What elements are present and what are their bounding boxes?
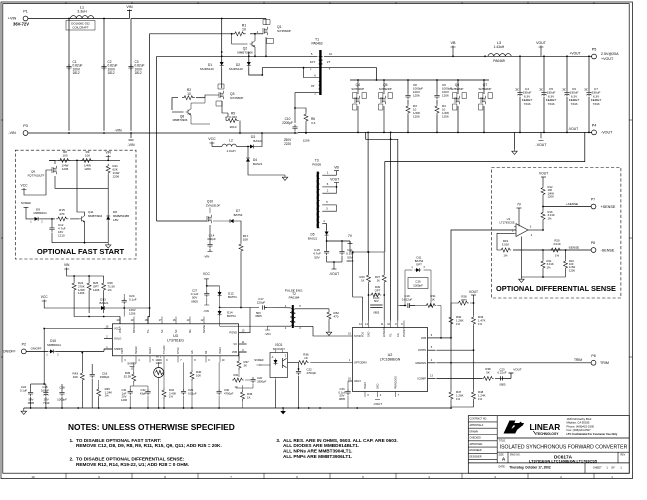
wire 7V bus bbox=[350, 241, 384, 253]
svg-text:FSET: FSET bbox=[121, 347, 124, 354]
capacitor C30b bbox=[217, 362, 234, 408]
svg-text:P0926: P0926 bbox=[312, 163, 321, 167]
svg-text:P5: P5 bbox=[592, 48, 597, 52]
svg-text:1%: 1% bbox=[478, 322, 483, 326]
svg-text:3.: 3. bbox=[276, 438, 280, 444]
resistor R15 bbox=[56, 208, 79, 221]
wire -VIN rail bbox=[28, 129, 298, 134]
svg-text:APPROVED: APPROVED bbox=[470, 443, 483, 446]
wire C15 C11 join bbox=[327, 261, 342, 263]
wire -SENSE bbox=[513, 245, 591, 251]
terminal P3 -VIN bbox=[8, 124, 28, 135]
svg-text:2: 2 bbox=[327, 189, 329, 193]
resistor R27 bbox=[375, 252, 386, 321]
resistor R12 bbox=[541, 185, 554, 210]
svg-text:MMBT3906: MMBT3906 bbox=[237, 50, 253, 54]
svg-text:OF: OF bbox=[611, 465, 615, 469]
svg-text:3: 3 bbox=[124, 359, 126, 362]
svg-text:P8: P8 bbox=[591, 241, 595, 245]
svg-text:9T: 9T bbox=[311, 84, 315, 88]
svg-text:7343: 7343 bbox=[43, 401, 50, 405]
capacitor C33 bbox=[338, 387, 350, 408]
resistor R1 bbox=[233, 24, 247, 36]
svg-text:2: 2 bbox=[285, 326, 287, 330]
svg-text:BAS21: BAS21 bbox=[253, 139, 263, 143]
svg-text:ICOMP: ICOMP bbox=[417, 376, 426, 380]
svg-text:BAS21: BAS21 bbox=[100, 301, 109, 305]
svg-text:52.3K: 52.3K bbox=[124, 374, 132, 378]
resistor R40 bbox=[190, 362, 202, 408]
wire P2 to shdn bbox=[26, 350, 48, 352]
svg-text:APPROVALS: APPROVALS bbox=[470, 424, 484, 427]
svg-text:0.1uF: 0.1uF bbox=[20, 388, 28, 392]
svg-text:10: 10 bbox=[242, 27, 246, 31]
transistor Q8 MMBT3906 bbox=[172, 103, 210, 124]
svg-text:10K: 10K bbox=[243, 238, 249, 242]
diode D8 MMBZ5248B bbox=[106, 210, 129, 243]
notes heading bbox=[68, 422, 235, 432]
capacitor C31 bbox=[121, 386, 133, 408]
resistor R36 bbox=[298, 353, 353, 370]
svg-text:3: 3 bbox=[367, 394, 369, 397]
logo linear technology bbox=[504, 417, 618, 436]
svg-text:Si7456DP: Si7456DP bbox=[277, 29, 291, 33]
svg-text:18: 18 bbox=[145, 319, 148, 322]
capacitor C8 1000pF bbox=[405, 80, 423, 104]
svg-text:1K: 1K bbox=[431, 297, 435, 301]
net label SVREF fast start bbox=[21, 201, 33, 219]
capacitor C6 bbox=[563, 57, 580, 133]
svg-text:5: 5 bbox=[311, 52, 313, 56]
svg-text:VIN: VIN bbox=[126, 5, 133, 9]
svg-text:17: 17 bbox=[159, 319, 162, 322]
svg-text:VCC: VCC bbox=[21, 184, 29, 188]
svg-text:-VOUT: -VOUT bbox=[373, 402, 382, 406]
svg-text:COILCRAFT: COILCRAFT bbox=[72, 26, 88, 30]
svg-text:4700pF: 4700pF bbox=[307, 371, 317, 375]
wire C1 drop bbox=[68, 19, 70, 131]
svg-text:1: 1 bbox=[411, 266, 413, 269]
svg-text:1: 1 bbox=[314, 92, 316, 96]
capacitor C28 bbox=[57, 384, 67, 408]
wire T1 pin1 bbox=[295, 93, 319, 123]
diode D13 BAS21 bbox=[60, 298, 151, 311]
net label 7V u1 bbox=[517, 202, 522, 226]
svg-text:Milpitas, CA 95035: Milpitas, CA 95035 bbox=[567, 421, 590, 425]
svg-text:OVLO: OVLO bbox=[114, 337, 121, 341]
svg-text:SVREF: SVREF bbox=[135, 345, 138, 354]
resistor R47 bbox=[449, 362, 464, 407]
svg-text:MMBT3904: MMBT3904 bbox=[88, 214, 103, 218]
wire snubber return bbox=[366, 132, 398, 320]
svg-text:ON/OFF: ON/OFF bbox=[31, 347, 42, 351]
svg-text:0.1uF: 0.1uF bbox=[129, 298, 137, 302]
resistor R43 bbox=[73, 352, 85, 408]
svg-text:7343: 7343 bbox=[571, 102, 578, 106]
svg-text:CHECKED: CHECKED bbox=[470, 438, 482, 440]
wire ground rail left bbox=[24, 407, 110, 409]
transformer T3 P0926 bbox=[312, 159, 328, 229]
svg-text:GS: GS bbox=[191, 350, 194, 354]
svg-text:2200pF: 2200pF bbox=[282, 121, 293, 125]
svg-text:U3: U3 bbox=[173, 334, 178, 338]
svg-text:20: 20 bbox=[117, 319, 120, 322]
svg-text:PA0469: PA0469 bbox=[493, 59, 505, 63]
svg-text:OPT: OPT bbox=[375, 289, 381, 293]
svg-text:1%: 1% bbox=[503, 254, 508, 258]
svg-text:OPTODRV: OPTODRV bbox=[354, 361, 367, 365]
wire VB rail right bbox=[324, 55, 592, 57]
thermistor RT1 bbox=[154, 355, 164, 408]
svg-text:SYNC: SYNC bbox=[354, 334, 361, 338]
svg-text:8: 8 bbox=[401, 323, 403, 326]
svg-text:1.43uH: 1.43uH bbox=[494, 45, 505, 49]
svg-text:0805: 0805 bbox=[499, 382, 506, 386]
svg-text:GND: GND bbox=[368, 331, 371, 337]
capacitor C16 bbox=[405, 270, 431, 306]
svg-text:LTC Confidential For Customer: LTC Confidential For Customer Use Only bbox=[567, 432, 618, 436]
diode D14 BAT54 bbox=[218, 309, 236, 326]
svg-text:SGND: SGND bbox=[149, 347, 152, 354]
svg-text:SVREF: SVREF bbox=[254, 358, 264, 362]
svg-text:P7: P7 bbox=[591, 197, 595, 201]
svg-text:0805: 0805 bbox=[28, 401, 35, 405]
svg-text:1K: 1K bbox=[304, 356, 308, 360]
svg-text:ALL NPNs ARE MMBT3904LT1.: ALL NPNs ARE MMBT3904LT1. bbox=[283, 449, 352, 455]
note 2 bbox=[70, 457, 189, 468]
svg-text:P6: P6 bbox=[591, 354, 595, 358]
net label -VIN t2 bbox=[265, 326, 271, 336]
diode D4 BAS21 bbox=[246, 146, 263, 166]
svg-text:DWG NO.: DWG NO. bbox=[510, 455, 521, 457]
svg-text:1%: 1% bbox=[478, 397, 483, 401]
svg-text:-VIN: -VIN bbox=[265, 332, 271, 336]
svg-text:OPTIONAL DIFFERENTIAL SENSE: OPTIONAL DIFFERENTIAL SENSE bbox=[496, 284, 616, 293]
svg-text:1%: 1% bbox=[456, 397, 461, 401]
wire opto feedback bbox=[254, 358, 270, 365]
resistor R21 bbox=[541, 250, 554, 277]
svg-text:16: 16 bbox=[106, 326, 109, 329]
svg-text:LTC1698EGN: LTC1698EGN bbox=[380, 358, 401, 362]
svg-text:1: 1 bbox=[620, 465, 622, 469]
svg-text:VFB: VFB bbox=[421, 336, 426, 340]
op-amp U1 LT1783CS5 bbox=[499, 217, 532, 237]
svg-text:3300pF: 3300pF bbox=[257, 379, 267, 383]
svg-text:VOUT: VOUT bbox=[513, 367, 522, 371]
svg-text:P1: P1 bbox=[23, 10, 28, 14]
ground left bbox=[21, 408, 27, 414]
svg-text:PGND: PGND bbox=[229, 331, 237, 335]
capacitor C24 bbox=[20, 384, 35, 408]
wire -VOUT rail bbox=[298, 132, 592, 134]
svg-text:TRIM: TRIM bbox=[600, 361, 609, 365]
svg-text:P3: P3 bbox=[23, 124, 28, 128]
inductor L1 bbox=[66, 6, 95, 31]
transistor Q11 MMBT3904 bbox=[77, 160, 103, 242]
svg-text:+SENSE: +SENSE bbox=[566, 202, 578, 206]
resistor R42 bbox=[162, 362, 176, 408]
svg-text:10: 10 bbox=[387, 323, 390, 326]
svg-text:ENGINEER: ENGINEER bbox=[470, 450, 482, 452]
svg-text:1K: 1K bbox=[247, 396, 251, 400]
svg-text:DATE:: DATE: bbox=[499, 466, 506, 469]
capacitor C19 bbox=[400, 294, 432, 308]
wire kelvin gnd sense bbox=[385, 132, 585, 252]
caption optional differential sense bbox=[496, 284, 616, 293]
capacitor C11 mid bbox=[339, 241, 354, 263]
capacitor C12 bbox=[49, 218, 65, 243]
svg-text:7V: 7V bbox=[517, 202, 522, 206]
svg-text:3.3: 3.3 bbox=[311, 121, 316, 125]
svg-text:7: 7 bbox=[398, 394, 400, 397]
capacitor C27 bbox=[191, 286, 210, 313]
op-amp U3 LT3781EG controller bbox=[104, 317, 247, 363]
wire pgnd to T2 bbox=[220, 307, 259, 333]
svg-text:1: 1 bbox=[606, 465, 608, 469]
resistor R26 bbox=[102, 276, 115, 313]
diode D5 BAS21 bbox=[308, 230, 350, 242]
svg-text:TO DISABLE OPTIONAL DIFFERENTI: TO DISABLE OPTIONAL DIFFERENTIAL SENSE: bbox=[76, 457, 185, 463]
net label VCC u3 bbox=[41, 295, 60, 308]
resistor R17 bbox=[239, 234, 249, 308]
svg-text:47K: 47K bbox=[59, 212, 65, 216]
svg-text:BSTREF: BSTREF bbox=[133, 323, 136, 333]
svg-text:A: A bbox=[272, 356, 274, 359]
wire T3 pin2 bbox=[322, 186, 337, 193]
svg-text:4: 4 bbox=[380, 394, 382, 397]
wire vaux stub bbox=[348, 381, 353, 389]
caption optional fast start bbox=[37, 247, 125, 256]
wire secondary left drop bbox=[156, 57, 158, 222]
net label -VOUT mid bbox=[329, 262, 339, 276]
svg-text:3.01K: 3.01K bbox=[553, 242, 561, 246]
capacitor C4 bbox=[516, 57, 533, 133]
svg-text:SENSE: SENSE bbox=[203, 324, 206, 333]
capacitor C15 bbox=[313, 241, 329, 262]
note 3 bbox=[276, 438, 397, 460]
svg-text:5: 5 bbox=[326, 200, 328, 204]
svg-text:3.3uH: 3.3uH bbox=[77, 9, 87, 13]
svg-text:3: 3 bbox=[326, 207, 328, 211]
svg-text:4: 4 bbox=[531, 233, 533, 237]
capacitor C9 1000pF bbox=[434, 80, 452, 104]
net label VCC c27 bbox=[203, 272, 220, 287]
resistor R33 bbox=[472, 315, 486, 390]
capacitor C5 bbox=[540, 57, 557, 133]
svg-text:0.01uF: 0.01uF bbox=[188, 391, 197, 395]
svg-text:1206: 1206 bbox=[93, 288, 100, 292]
svg-text:ISOLATED SYNCHRONOUS FORWARD C: ISOLATED SYNCHRONOUS FORWARD CONVERTER bbox=[500, 445, 628, 451]
svg-text:10: 10 bbox=[234, 385, 238, 389]
svg-text:MURS120: MURS120 bbox=[229, 67, 243, 71]
wire U1 to VFB bbox=[451, 230, 516, 338]
transistor Q9 FQT7N10LTF bbox=[28, 160, 109, 188]
svg-text:100uF: 100uF bbox=[41, 388, 49, 392]
svg-text:10T: 10T bbox=[310, 60, 315, 64]
svg-text:NOTES: UNLESS OTHERWISE SPECI: NOTES: UNLESS OTHERWISE SPECIFIED bbox=[68, 422, 235, 432]
svg-text:8: 8 bbox=[194, 359, 196, 362]
svg-text:-VOUT: -VOUT bbox=[329, 272, 339, 276]
svg-text:1206: 1206 bbox=[62, 167, 69, 171]
svg-text:5: 5 bbox=[431, 346, 433, 349]
svg-text:9: 9 bbox=[242, 349, 244, 352]
svg-text:7343: 7343 bbox=[548, 102, 555, 106]
terminal P4 -VOUT bbox=[568, 124, 613, 135]
svg-text:P2: P2 bbox=[22, 343, 26, 347]
capacitor C21 bbox=[370, 293, 382, 315]
svg-text:TRIM: TRIM bbox=[574, 358, 582, 362]
capacitor C25 bbox=[31, 383, 50, 408]
svg-text:VOUT: VOUT bbox=[330, 178, 339, 182]
svg-text:Si7456DP: Si7456DP bbox=[230, 96, 243, 100]
wire gate drive feed bbox=[148, 34, 263, 324]
svg-text:VCC: VCC bbox=[41, 295, 49, 299]
svg-text:43pF: 43pF bbox=[140, 391, 147, 395]
resistor R45 bbox=[97, 380, 112, 408]
wire icomp bbox=[436, 377, 482, 379]
svg-text:Si7892DP: Si7892DP bbox=[479, 87, 492, 91]
wire gate drive bus bbox=[157, 220, 206, 222]
svg-text:10K: 10K bbox=[196, 373, 201, 377]
svg-text:100: 100 bbox=[63, 154, 68, 158]
svg-text:LT3781EGN,LTC1698EGN,LT1783CS5: LT3781EGN,LTC1698EGN,LT1783CS5 bbox=[529, 459, 598, 463]
wire margin trim bbox=[436, 358, 591, 363]
resistor R28 bbox=[451, 295, 474, 306]
svg-text:MARGIN: MARGIN bbox=[416, 361, 427, 365]
wire T3 primary bottom bbox=[322, 224, 326, 230]
svg-text:FG: FG bbox=[390, 334, 393, 337]
svg-text:REMOVE R12, R14, R19-22, U1; A: REMOVE R12, R14, R19-22, U1; ADD R28 = 0… bbox=[76, 462, 189, 468]
net label VOUT T3 bbox=[322, 178, 339, 187]
net label VOUT divider bbox=[469, 290, 478, 315]
svg-text:1206: 1206 bbox=[548, 195, 555, 199]
capacitor C3 bbox=[128, 60, 144, 75]
terminal P7 +SENSE bbox=[591, 197, 616, 209]
svg-text:Si7892DP: Si7892DP bbox=[451, 87, 464, 91]
wire vdd feed bbox=[353, 252, 363, 321]
diode D3 BAS21 bbox=[248, 132, 263, 148]
svg-text:ALL RES. ARE IN OHMS, 0603. A: ALL RES. ARE IN OHMS, 0603. ALL CAP. ARE… bbox=[283, 438, 398, 444]
net label VIN r24 bbox=[64, 263, 104, 277]
svg-text:THERM: THERM bbox=[163, 345, 166, 354]
svg-text:1812: 1812 bbox=[73, 71, 80, 75]
svg-text:VOUT: VOUT bbox=[536, 41, 547, 45]
svg-text:OPT: OPT bbox=[461, 298, 467, 302]
svg-text:11: 11 bbox=[381, 323, 384, 326]
svg-text:VC: VC bbox=[233, 342, 237, 346]
diode D15 MMBD914 bbox=[46, 339, 112, 357]
wire vcc drop bbox=[43, 328, 45, 384]
svg-text:-VIN: -VIN bbox=[114, 129, 121, 133]
svg-text:36V-72V: 36V-72V bbox=[13, 22, 29, 27]
svg-text:SS: SS bbox=[205, 350, 208, 354]
resistor R31 bbox=[398, 294, 442, 339]
resistor R41 bbox=[232, 373, 250, 389]
resistor R16 bbox=[541, 210, 555, 230]
svg-text:P4: P4 bbox=[592, 124, 597, 128]
net label VCC fast start bbox=[21, 183, 46, 195]
svg-text:TECHNOLOGY: TECHNOLOGY bbox=[536, 432, 559, 436]
svg-text:1: 1 bbox=[106, 346, 108, 349]
resistor R8 bbox=[58, 150, 70, 171]
svg-text:BAS21: BAS21 bbox=[308, 237, 318, 241]
svg-text:220pF: 220pF bbox=[257, 300, 266, 304]
svg-text:1812: 1812 bbox=[135, 71, 142, 75]
svg-text:VAUX: VAUX bbox=[354, 379, 361, 383]
wire T1 pin2 to D2 bbox=[262, 68, 318, 75]
svg-text:18V: 18V bbox=[113, 218, 119, 222]
svg-text:0805: 0805 bbox=[191, 299, 198, 303]
note 1 bbox=[70, 438, 222, 449]
svg-text:1%: 1% bbox=[108, 288, 113, 292]
svg-text:5: 5 bbox=[152, 359, 154, 362]
svg-text:-VIN: -VIN bbox=[127, 143, 134, 147]
svg-text:1206: 1206 bbox=[121, 398, 128, 402]
resistor R39 bbox=[124, 362, 136, 386]
svg-text:1206: 1206 bbox=[413, 94, 420, 98]
resistor R6 bbox=[295, 108, 316, 143]
svg-text:VDD: VDD bbox=[362, 332, 365, 337]
svg-text:R41: R41 bbox=[233, 373, 239, 377]
net label VOUT top bbox=[536, 41, 547, 57]
svg-text:BAT54: BAT54 bbox=[227, 314, 236, 318]
svg-text:2T: 2T bbox=[327, 60, 331, 64]
svg-text:2.5V@20A: 2.5V@20A bbox=[601, 52, 619, 56]
svg-text:0.033: 0.033 bbox=[229, 115, 237, 119]
net label VB bbox=[451, 41, 456, 57]
svg-text:3300pF: 3300pF bbox=[100, 375, 110, 379]
wire C3 drop bbox=[130, 19, 132, 131]
resistor R46 bbox=[241, 385, 253, 408]
wire VB rail left bbox=[157, 55, 318, 57]
capacitor C2 bbox=[101, 60, 117, 75]
terminal P5 +VOUT bbox=[569, 48, 619, 61]
svg-text:14: 14 bbox=[365, 323, 368, 326]
optocoupler ISO1 MOC207 bbox=[270, 343, 298, 408]
svg-text:PA0463: PA0463 bbox=[311, 42, 322, 46]
svg-text:7343: 7343 bbox=[593, 102, 600, 106]
svg-text:15: 15 bbox=[348, 333, 351, 336]
svg-text:ALL PNPs ARE MMBT3906LT1.: ALL PNPs ARE MMBT3906LT1. bbox=[283, 454, 352, 460]
svg-text:0805: 0805 bbox=[339, 397, 346, 401]
resistor R2 bbox=[172, 88, 205, 110]
svg-text:1206: 1206 bbox=[413, 115, 420, 119]
svg-text:L2: L2 bbox=[229, 139, 233, 143]
diode D11 BAT54 OPT bbox=[411, 256, 425, 273]
svg-text:1210: 1210 bbox=[58, 234, 65, 238]
svg-text:1K: 1K bbox=[377, 279, 381, 283]
transistor Q6 Si7892DP bbox=[451, 80, 467, 132]
svg-text:D8: D8 bbox=[113, 210, 117, 214]
svg-text:10K: 10K bbox=[73, 375, 78, 379]
svg-text:BAS21: BAS21 bbox=[253, 162, 263, 166]
svg-text:REV: REV bbox=[621, 455, 626, 457]
svg-text:8: 8 bbox=[329, 67, 331, 71]
svg-text:1: 1 bbox=[327, 171, 329, 175]
resistor R49 bbox=[368, 285, 386, 297]
wire D2 branch bbox=[248, 52, 250, 62]
svg-text:PGND: PGND bbox=[364, 382, 367, 389]
svg-text:+VIN: +VIN bbox=[8, 17, 17, 21]
svg-text:19: 19 bbox=[131, 319, 134, 322]
op-amp U2 LTC1698EGN sync controller bbox=[348, 321, 435, 398]
svg-text:100: 100 bbox=[85, 154, 90, 158]
net label SVREF u3 bbox=[127, 362, 137, 371]
svg-text:10: 10 bbox=[187, 92, 191, 96]
resistor R30 bbox=[449, 303, 464, 390]
svg-text:R49: R49 bbox=[375, 285, 381, 289]
svg-text:Q9: Q9 bbox=[31, 170, 35, 174]
